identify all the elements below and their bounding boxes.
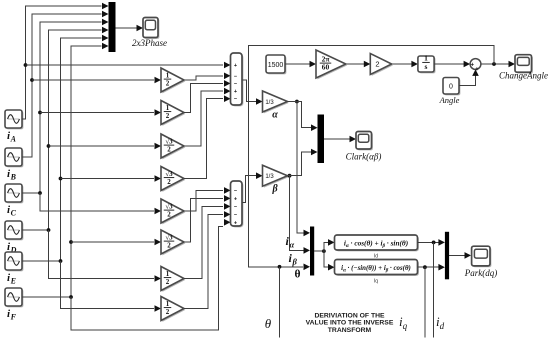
junction beta output [288,174,292,178]
svg-text:−: − [234,212,237,218]
wire alpha to Clark mux [288,102,314,128]
gain G3 [162,135,185,159]
wire G7 output to sum [184,206,223,278]
wire iE to gain G4 [61,178,155,180]
wire alpha down to Park mux [297,102,306,233]
junction theta branch [278,265,282,269]
wire sum-beta to gain 1/3 beta [243,176,259,203]
arrowhead into gain G3 [155,143,162,150]
svg-text:1: 1 [166,71,170,79]
arrowhead sum-beta input [224,211,231,218]
scope ChangeAngle [516,56,533,74]
wire iA to column [22,6,102,119]
svg-text:√3: √3 [165,170,173,178]
svg-text:Park(dq): Park(dq) [464,268,498,278]
wire iB to column [22,14,102,157]
arrowhead into mux (iA) [102,3,109,10]
constant block 1500 [267,56,286,74]
svg-text:β: β [271,184,278,195]
arrowhead into ChangeAngle scope [509,61,516,68]
svg-text:1500: 1500 [268,62,284,69]
svg-text:θ: θ [294,269,300,281]
arrowhead Park in1 [304,230,311,237]
wire iE down to gain G8 [61,261,155,309]
arrowhead into gain G1 [155,77,162,84]
svg-text:√3: √3 [165,137,173,145]
svg-text:TRANSFORM: TRANSFORM [328,327,372,334]
wire to Fcn1 [324,242,330,251]
wire G8 output to sum [184,214,223,308]
svg-text:α: α [289,240,294,250]
sine wave source i_F [6,289,23,307]
arrowhead sum-alpha input [224,88,231,95]
svg-text:Angle: Angle [439,95,460,105]
arrowhead sum-alpha input [224,80,231,87]
gain G7 [162,268,185,292]
arrowhead into sum circle [464,61,471,68]
constant block Angle (0) [444,79,460,96]
svg-text:60: 60 [322,63,330,72]
arrowhead sum-alpha input [224,62,231,69]
junction iC join [38,191,42,195]
arrowhead into 2x3Phase scope [137,25,144,32]
function block Fcn2 [336,261,419,276]
wire beta down to Park mux [290,176,306,251]
svg-text:2: 2 [375,60,379,69]
svg-text:A: A [10,135,17,144]
svg-text:−: − [234,204,237,210]
arrowhead sum-alpha input [224,95,231,102]
svg-text:+: + [470,62,474,68]
arrowhead into 1/3 alpha [256,98,263,105]
svg-text:√3: √3 [165,202,173,210]
arrowhead into Clark scope [350,136,357,143]
gain G6 [162,231,185,255]
wire G2 output to sum [184,83,223,112]
svg-text:2: 2 [166,80,170,88]
arrowhead into Fcn1 [328,239,335,246]
sine wave source i_E [6,253,23,271]
svg-text:B: B [10,173,17,182]
wire G5 output to sum [184,190,223,211]
wire Park mux output branch [314,250,324,252]
svg-text:VALUE INTO THE INVERSE: VALUE INTO THE INVERSE [306,320,394,327]
svg-text:2: 2 [167,146,171,154]
sum circle [470,59,481,70]
arrowhead into sum circle bottom [472,69,479,76]
svg-text:Clark(αβ): Clark(αβ) [346,152,382,162]
scope Clark [357,133,373,151]
arrowhead into integrator [411,61,418,68]
mux M2 (Clark) [318,115,325,164]
arrowhead into gain 2 [364,61,371,68]
wire i_q off-page [424,267,426,337]
wire iE column [22,38,102,261]
svg-text:−: − [234,81,237,87]
sine wave source i_D [6,222,23,240]
svg-text:+: + [234,220,237,226]
arrowhead sum-alpha input [224,73,231,80]
svg-text:Iq: Iq [374,278,378,284]
gain 2 [372,55,393,76]
wire iC column [22,22,102,193]
junction iF branch g6 [69,240,73,244]
arrowhead sum-beta input [224,195,231,202]
svg-text:+: + [234,196,237,202]
junction alpha output [295,100,299,104]
arrowhead into mux (iD) [102,27,109,34]
arrowhead into mux (iF) [102,43,109,50]
wire mux4 to Park scope [449,254,466,256]
svg-text:−: − [234,97,237,103]
arrowhead into 2pi/60 [310,61,317,68]
wire to gain 2 [346,63,366,65]
wire to integrator [392,63,414,65]
svg-text:1: 1 [166,104,170,112]
junction iB branch [30,78,34,82]
wire iD down to gain G7 [49,230,155,279]
svg-text:s: s [425,62,428,71]
wire i_d off-page [433,242,435,337]
svg-text:2: 2 [166,308,170,316]
svg-text:α: α [272,110,278,121]
svg-text:β: β [291,257,297,267]
arrowhead into mux (iB) [102,11,109,18]
svg-text:Id: Id [374,254,378,260]
svg-text:1: 1 [166,270,170,278]
mux M1 (2x3Phase) [109,2,116,52]
wire Fcn2 to mux [418,266,441,268]
scope 2x3Phase [144,19,159,39]
arrowhead Clark in1 [311,124,318,131]
wire iB to gain G1 [32,79,154,81]
arrowhead into 1/3 beta [256,172,263,179]
mux M4 (Park output) [445,232,449,279]
svg-text:−: − [234,74,237,80]
svg-text:F: F [10,313,17,322]
svg-text:√3: √3 [165,233,173,241]
junction i_d tap [432,241,436,245]
wire 1500 to gain 2pi/60 [285,63,312,65]
junction iD branch g3 [47,144,51,148]
junction Fcn branch [322,249,326,253]
wire G4 output to sum [184,99,223,179]
svg-text:2: 2 [167,178,171,186]
wire sum-alpha to gain 1/3 alpha [243,80,259,102]
junction iA branch [24,63,28,67]
junction iD join [47,228,51,232]
arrowhead sum-beta input [224,219,231,226]
svg-text:iα · cos(θ) + iβ · sin(θ): iα · cos(θ) + iβ · sin(θ) [344,238,408,249]
svg-text:2: 2 [167,211,171,219]
svg-text:ChangeAngle: ChangeAngle [499,71,548,81]
wire iD to gain G3 [49,145,155,147]
mux M3 (Park input) [310,227,314,276]
wire theta down off-page [279,267,281,338]
wire integrator to sum circle [434,63,466,65]
wire G6 output to sum [184,198,223,242]
svg-text:θ: θ [265,316,272,331]
svg-text:+: + [234,89,237,95]
sum block U2 (beta) [232,182,244,227]
gain 1/3 (beta) [264,167,289,188]
function block Fcn1 [336,236,419,251]
wire Angle to sum circle [459,74,476,86]
wire iF column [22,46,102,297]
sine wave source i_C [6,185,23,203]
svg-text:2x3Phase: 2x3Phase [132,38,167,48]
svg-text:1: 1 [166,300,170,308]
arrowhead into gain G7 [155,275,162,282]
gain 1/3 (alpha) [264,92,289,113]
wire iC down to gain G5 [40,193,154,211]
svg-text:1/3: 1/3 [265,174,274,180]
scope Park [473,248,491,268]
wire Fcn1 to mux [418,241,441,243]
arrowhead Park in2 [304,247,311,254]
wire to Fcn2 [324,251,330,267]
gain G1 [162,69,185,93]
wire G1 output to sum [184,76,223,80]
wire Clark mux to scope [324,138,351,140]
gain G8 [162,298,185,322]
sine wave source i_A [6,111,23,129]
arrowhead into Fcn2 [328,264,335,271]
junction iE branch g4 [59,177,63,181]
integrator block 1/s [419,57,435,73]
arrowhead into gain G6 [155,239,162,246]
arrowhead sum-beta input [224,187,231,194]
sine wave source i_B [6,149,23,167]
arrowhead into gain G2 [155,109,162,116]
svg-text:1/3: 1/3 [265,100,274,106]
arrowhead mux4 in1 [438,239,445,246]
gain G4 [162,168,185,192]
wire iF to gain G6 [71,241,154,243]
junction iF join [69,295,73,299]
gain 2pi/60 [317,51,347,79]
svg-text:2: 2 [166,112,170,120]
junction i_q tap [423,265,427,269]
wire theta feedback [249,46,494,267]
wire iC to gain G2 [40,112,154,114]
svg-text:E: E [10,277,16,286]
arrowhead Park in3 (theta) [304,264,311,271]
arrowhead into mux (iC) [102,19,109,26]
svg-text:DERIVIATION OF THE: DERIVIATION OF THE [314,313,385,320]
svg-text:0: 0 [449,84,453,91]
arrowhead into Park scope [465,252,472,259]
svg-text:−: − [234,188,237,194]
svg-text:2: 2 [167,242,171,250]
wire sum circle to scope [481,63,511,65]
gain G2 [162,102,185,126]
arrowhead into gain G4 [155,175,162,182]
arrowhead into gain G5 [155,208,162,215]
sum block U1 (alpha) [232,54,244,106]
arrowhead into gain G8 [155,305,162,312]
wire iA to sum-alpha in1 [26,64,224,66]
svg-text:2: 2 [166,278,170,286]
wire mux1 to scope [116,27,139,29]
arrowhead sum-beta input [224,203,231,210]
junction iE join [59,259,63,263]
junction iC branch g2 [38,111,42,115]
wire iF bottom to sum-beta in5 [71,227,223,331]
gain G5 [162,200,185,224]
arrowhead mux4 in2 [438,264,445,271]
svg-text:+: + [234,63,237,69]
arrowhead into mux (iE) [102,35,109,42]
wire beta to Clark mux [288,152,314,176]
arrowhead Clark in2 [311,149,318,156]
junction theta feedback [492,62,496,66]
wire G3 output to sum [184,91,223,146]
svg-text:C: C [11,209,17,218]
wire iD column [22,30,102,230]
